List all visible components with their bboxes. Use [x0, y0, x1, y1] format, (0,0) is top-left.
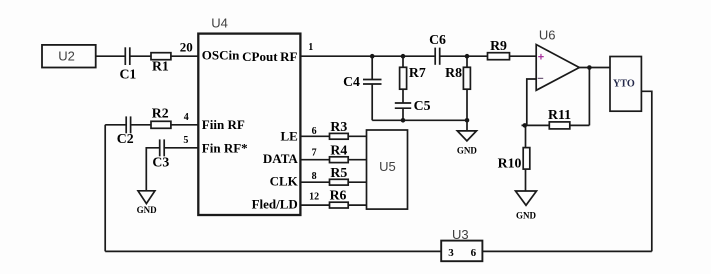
wire R8 to ground: [466, 120, 468, 131]
wire U4 pin5 to C3: [165, 147, 199, 149]
wire R10 top leg: [525, 125, 527, 147]
svg-text:6: 6: [312, 126, 317, 137]
wire R8 bottom leg: [466, 89, 468, 120]
capacitor C2: [125, 116, 127, 133]
ground under R8: [457, 131, 476, 141]
capacitor C1: [124, 47, 126, 65]
svg-text:R4: R4: [330, 142, 347, 157]
svg-text:C4: C4: [343, 74, 360, 89]
wire R10 to ground: [525, 169, 527, 191]
capacitor C5: [395, 102, 411, 104]
wire C4 top leg: [371, 56, 373, 79]
wire op-amp output to YTO: [579, 67, 610, 69]
wire R7 top leg: [402, 56, 404, 67]
svg-text:U6: U6: [539, 27, 556, 42]
svg-text:1: 1: [308, 42, 313, 53]
wire C6 to R9: [440, 55, 487, 57]
svg-text:20: 20: [180, 40, 193, 55]
resistor R6: [330, 202, 349, 208]
resistor R10: [523, 148, 530, 170]
wire R6 to U5: [348, 204, 366, 206]
resistor R1: [151, 53, 171, 60]
junction node bottom rail at R8: [465, 118, 470, 123]
wire filter bottom rail: [372, 119, 467, 121]
wire C5 bottom leg: [402, 109, 404, 121]
wire output feedback down: [588, 68, 590, 126]
svg-text:R2: R2: [152, 106, 169, 121]
resistor R2: [151, 121, 171, 128]
wire R9 to op-amp: [510, 55, 537, 57]
wire C2 to R2: [131, 124, 151, 126]
svg-text:R7: R7: [409, 65, 426, 80]
svg-text:R11: R11: [548, 107, 571, 122]
svg-text:5: 5: [183, 135, 188, 146]
IC U4 box: [198, 34, 300, 215]
wire C1 to R1: [131, 55, 152, 57]
svg-text:R3: R3: [330, 119, 347, 134]
wire R8 top leg: [466, 56, 468, 67]
svg-text:12: 12: [309, 192, 319, 203]
svg-text:GND: GND: [457, 145, 478, 155]
svg-text:+: +: [538, 52, 544, 64]
resistor R4: [330, 157, 349, 163]
capacitor C6: [434, 48, 436, 65]
wire R2 to U4 pin4: [171, 124, 198, 126]
feedback divider box U3: [441, 241, 482, 262]
IC U5 box: [367, 130, 408, 209]
svg-text:C6: C6: [429, 32, 446, 47]
svg-text:GND: GND: [516, 210, 537, 220]
wire left rail up to C2: [104, 125, 106, 252]
wire U4 pin8 to R5: [300, 181, 329, 183]
svg-text:R5: R5: [330, 165, 347, 180]
svg-text:−: −: [537, 73, 543, 85]
wire U4 pin1 to C6: [300, 55, 434, 57]
svg-text:CLK: CLK: [270, 174, 299, 189]
svg-text:C2: C2: [117, 131, 134, 146]
svg-text:CPout RF: CPout RF: [242, 49, 297, 64]
ground under R10: [516, 191, 537, 205]
resistor R9: [488, 53, 510, 60]
wire inverting input stub: [527, 79, 536, 125]
svg-text:8: 8: [312, 171, 317, 182]
svg-text:U2: U2: [58, 49, 75, 64]
wire R1 to U4 pin20: [171, 55, 199, 57]
junction node bottom rail at C5: [401, 118, 406, 123]
wire C3 to ground: [146, 148, 159, 191]
resistor R11: [549, 122, 570, 129]
ground under C3: [138, 191, 155, 204]
svg-text:Fin RF*: Fin RF*: [202, 141, 248, 156]
svg-text:R10: R10: [498, 156, 522, 171]
wire U4 pin12 to R6: [300, 204, 329, 206]
resistor R7: [400, 67, 407, 89]
junction node R11 left: [523, 123, 528, 128]
svg-text:YTO: YTO: [613, 78, 635, 89]
wire R11 right lead: [570, 124, 590, 126]
svg-text:R6: R6: [330, 188, 347, 203]
capacitor C4: [363, 79, 382, 81]
svg-text:C5: C5: [414, 98, 431, 113]
svg-text:GND: GND: [137, 205, 158, 215]
wire C4 bottom leg: [371, 84, 373, 120]
svg-text:R9: R9: [490, 38, 507, 53]
block U2 box: [42, 45, 96, 68]
svg-text:3: 3: [448, 247, 454, 259]
svg-text:4: 4: [184, 112, 189, 123]
wire U4 pin7 to R4: [300, 159, 329, 161]
svg-text:LE: LE: [280, 129, 297, 144]
junction node op-amp output: [587, 65, 592, 70]
svg-text:U4: U4: [211, 16, 228, 31]
svg-text:OSCin: OSCin: [202, 48, 240, 63]
junction node on main line at C4: [370, 54, 375, 59]
svg-text:C3: C3: [152, 155, 169, 170]
svg-text:Fiin RF: Fiin RF: [202, 117, 245, 132]
resistor R5: [330, 179, 349, 185]
svg-text:R8: R8: [445, 65, 462, 80]
svg-text:U3: U3: [452, 227, 469, 242]
op-amp U1 triangle U6: [536, 45, 579, 91]
wire R5 to U5: [348, 181, 366, 183]
resistor R8: [463, 67, 470, 89]
svg-text:DATA: DATA: [263, 151, 299, 166]
svg-text:7: 7: [312, 147, 317, 158]
svg-text:R1: R1: [152, 59, 169, 74]
wire R3 to U5: [348, 135, 366, 137]
wire R7 to C5: [402, 89, 404, 102]
wire R11 left lead: [522, 124, 550, 126]
capacitor C3: [159, 139, 161, 156]
svg-text:C1: C1: [119, 67, 136, 82]
wire R4 to U5: [348, 159, 366, 161]
wire U2 to C1: [96, 55, 125, 57]
wire bottom rail right of U3: [482, 250, 651, 252]
svg-text:6: 6: [471, 247, 477, 259]
wire bottom rail left of U3: [105, 250, 441, 252]
junction node on main line at R8: [465, 54, 470, 59]
wire U4 pin6 to R3: [300, 135, 329, 137]
resistor R3: [330, 133, 349, 139]
YTO box: [610, 57, 641, 112]
wire C2 left lead: [105, 124, 125, 126]
wire YTO output right: [641, 91, 651, 251]
junction node on main line at R7: [401, 54, 406, 59]
svg-text:U5: U5: [379, 159, 396, 174]
svg-text:Fled/LD: Fled/LD: [252, 197, 298, 212]
